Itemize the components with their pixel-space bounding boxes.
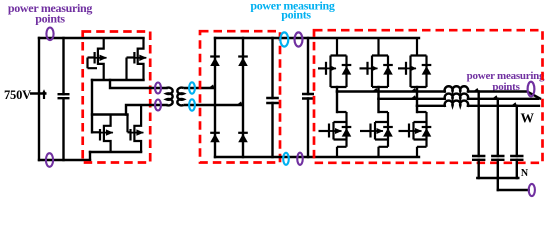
- wire: secondary to rectifier bottom: [184, 104, 244, 106]
- wire: filter tap 1: [478, 92, 480, 157]
- wire: phase line 1 after inductor: [468, 92, 540, 99]
- wire: neutral drop: [497, 178, 499, 190]
- wire: leg1 mid: [336, 87, 338, 92]
- measuring ellipse C1 (secondary top, cyan): [189, 82, 195, 93]
- svg-text:W: W: [521, 110, 535, 125]
- H-bridge wiring: [92, 80, 167, 132]
- wire: rectifier leg A: [214, 38, 216, 157]
- wire: neutral bus: [477, 177, 518, 179]
- wire: vertical x92 (gate tie): [91, 80, 93, 132]
- diode D3 (leg A lower): [210, 133, 220, 142]
- wire: mid rail y80: [92, 79, 144, 81]
- wire: H-bridge bottom rail: [90, 151, 141, 153]
- label: power measuring points (left, purple): [8, 1, 93, 25]
- inverter leg mid verticals: [337, 86, 540, 190]
- wire: leg2 mid: [377, 87, 379, 99]
- red dashed box: inverter: [314, 30, 543, 163]
- wire: top rail left section: [39, 37, 144, 39]
- MOSFET S4 (inverter leg1 lower): [319, 112, 352, 157]
- junction marker leg3 x line2: [411, 95, 417, 99]
- junction marker leg2 x line1: [372, 88, 378, 92]
- wire: primary bottom wire: [126, 105, 167, 115]
- wire: filter tap 3: [516, 106, 518, 156]
- inductor L2: [445, 94, 469, 99]
- wire: filter tap 2: [497, 99, 499, 156]
- measuring ellipse C2 (secondary bottom, cyan): [189, 99, 195, 110]
- transformer T1 primary winding: [167, 88, 173, 106]
- measuring ellipse P5 (dc link top, purple): [295, 32, 303, 46]
- wire: left source vertical: [38, 38, 40, 160]
- measuring ellipse P4 (primary bottom, purple): [155, 100, 161, 111]
- transformer T1 secondary winding: [177, 88, 183, 106]
- diode D4 (leg B lower): [238, 133, 248, 142]
- wire: lower drain rail y114.5: [92, 113, 128, 115]
- MOSFET Q3 (H-bridge lower-left): [92, 115, 113, 153]
- MOSFET S3 (inverter leg3 upper): [398, 38, 431, 87]
- svg-text:power measuring: power measuring: [467, 70, 545, 82]
- filter capacitor Cf1 plates: [472, 156, 485, 160]
- wire: filter cap bottoms to bus: [479, 160, 517, 178]
- measuring ellipse C3 (dc link top, cyan): [280, 32, 288, 46]
- red dashed box: rectifier: [200, 31, 280, 162]
- svg-text:points: points: [281, 7, 311, 21]
- MOSFET S1 (inverter leg1 upper): [318, 38, 351, 87]
- label: power measuring points (middle, cyan): [250, 0, 335, 21]
- wire: top rail middle/right: [215, 37, 419, 39]
- capacitor C-dc plates: [302, 94, 314, 99]
- diode D1 (leg A upper): [210, 57, 220, 67]
- filter capacitor Cf3 plates: [510, 156, 523, 160]
- junction marker at leg B / input bottom: [237, 102, 243, 106]
- wire: phase line 2 after inductor: [468, 98, 538, 100]
- inductor L3: [445, 101, 469, 106]
- measuring ellipse P2 (left bottom, purple): [46, 153, 53, 167]
- wire: phase line 2: [379, 98, 445, 100]
- MOSFET S6 (inverter leg3 lower): [399, 112, 432, 157]
- MOSFET S5 (inverter leg2 lower): [360, 112, 393, 157]
- junction marker tap2: [492, 95, 498, 99]
- junction marker at leg A / input top: [209, 85, 215, 89]
- filter capacitor Cf2 plates: [491, 156, 504, 160]
- battery/DC source E1: [30, 93, 47, 100]
- wire: bottom rail middle/right: [215, 156, 419, 158]
- capacitor C-in plates: [58, 94, 70, 98]
- capacitor C-in vertical leads: [62, 38, 64, 160]
- wire: step up into H-bridge bottom rail: [89, 152, 91, 160]
- rectifier bridge wiring: [215, 38, 419, 157]
- wire: secondary to rectifier top: [184, 87, 216, 89]
- capacitor C-dc leads: [307, 38, 309, 157]
- wire: bottom left rail: [39, 159, 90, 161]
- diode D2 (leg B upper): [238, 57, 248, 67]
- MOSFET Q1 (H-bridge upper-left): [88, 38, 107, 80]
- label: power measuring points (right, purple): [467, 70, 545, 93]
- inductor L1: [445, 86, 469, 91]
- measuring ellipse P3 (primary top, purple): [155, 83, 161, 94]
- wire: leg3 mid: [416, 87, 418, 106]
- junction marker leg3 x line1: [411, 88, 417, 92]
- svg-text:points: points: [35, 11, 65, 25]
- junction marker tap1: [473, 88, 479, 92]
- wire: phase line 3: [417, 105, 445, 107]
- measuring ellipse P8 (N output, purple): [529, 184, 535, 196]
- red dashed box: H-bridge converter: [83, 32, 151, 163]
- MOSFET Q4 (H-bridge lower-right): [128, 105, 144, 152]
- capacitor C-mid leads: [271, 38, 273, 157]
- wire: neutral lead to N: [498, 189, 529, 191]
- wire: phase line 3 after inductor: [468, 105, 539, 107]
- svg-text:N: N: [521, 168, 529, 179]
- capacitor C-mid plates: [266, 98, 279, 103]
- measuring ellipse P7 (W output, purple): [528, 82, 535, 97]
- measuring ellipse P1 (left top, purple): [46, 28, 53, 41]
- wire: phase line 1: [337, 90, 445, 92]
- junction marker tap3: [511, 102, 517, 106]
- measuring ellipse C4 (dc link bottom, cyan): [283, 153, 289, 165]
- MOSFET S2 (inverter leg2 upper): [360, 38, 393, 87]
- measuring ellipse P6 (dc link bottom, purple): [297, 153, 303, 165]
- svg-text:750V: 750V: [4, 88, 31, 102]
- wire: tap to primary top: [110, 80, 167, 88]
- MOSFET Q2 (H-bridge upper-right): [127, 38, 147, 80]
- wire: rectifier leg B: [242, 38, 244, 157]
